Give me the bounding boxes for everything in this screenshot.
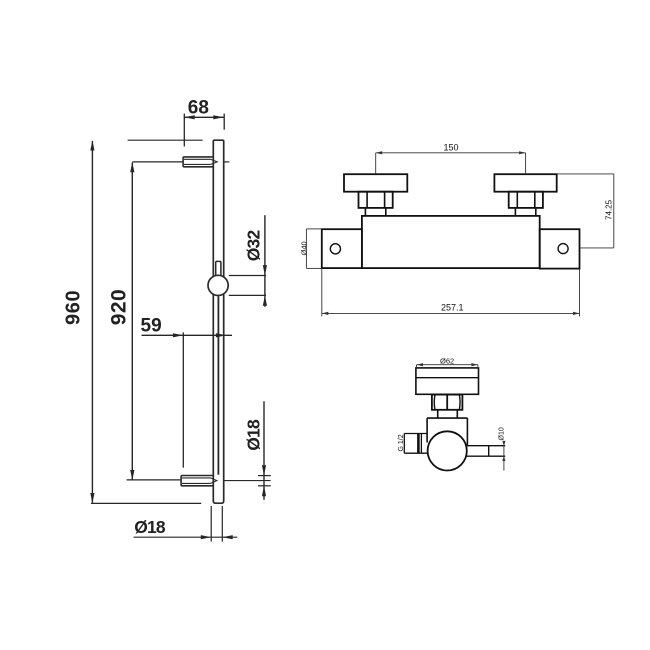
- dim O10 vertical line: [503, 441, 505, 470]
- dim O62 right extension stub: [477, 365, 479, 368]
- bottom wall arm outline: [181, 476, 213, 486]
- top arm right stub: [224, 161, 229, 163]
- slider knob circle: [208, 275, 228, 295]
- dim 150 left arrow: [376, 151, 383, 154]
- dim O18 upper arrow: [262, 465, 266, 475]
- side nut chamfer curves: [434, 395, 460, 409]
- side nut center line: [446, 395, 448, 409]
- dim O32 upper tangent line: [229, 275, 266, 277]
- dim O10 lower arrow: [502, 456, 505, 461]
- side body square right side: [466, 418, 468, 445]
- dim 68 right arrow: [213, 115, 223, 119]
- dim 68 line: [184, 116, 223, 118]
- svg-text:Ø62: Ø62: [440, 356, 454, 365]
- left port thin line: [420, 434, 422, 454]
- dim 150 left extension: [375, 153, 377, 174]
- dim 920 top arrow: [130, 162, 134, 172]
- dim O18 bottom extension right: [221, 506, 223, 542]
- dim 960 bottom reference line: [91, 502, 201, 504]
- dim 920 bottom reference line: [127, 479, 182, 481]
- right bracket: [540, 229, 580, 268]
- right knob cap: [494, 174, 556, 192]
- right stem: [515, 208, 535, 216]
- bottom arm inner line upper: [182, 477, 211, 479]
- dim O18 right vertical line: [263, 401, 265, 500]
- dim 150 right arrow: [519, 151, 526, 154]
- hose center line: [217, 296, 219, 475]
- dim O62 right arrow: [471, 363, 478, 366]
- bottom arm chamfer: [211, 478, 217, 484]
- dim 68 right extension line: [223, 114, 225, 130]
- dim 960 bottom arrow: [90, 493, 94, 503]
- svg-text:Ø18: Ø18: [134, 517, 166, 537]
- dim O62 left extension stub: [416, 365, 418, 368]
- svg-text:59: 59: [141, 315, 162, 336]
- dim 74.25 top reference: [557, 173, 614, 175]
- rail right outer line: [223, 141, 225, 502]
- svg-text:257.1: 257.1: [441, 303, 464, 313]
- right nut: [509, 192, 543, 208]
- dim O40 top line: [306, 228, 321, 230]
- dim 960 top arrow: [90, 140, 94, 150]
- dim O40 vertical line: [305, 229, 307, 269]
- dim 68 left extension line: [183, 114, 185, 147]
- dim 960 top reference line: [128, 139, 203, 141]
- dim O32 upper arrow: [263, 265, 267, 275]
- dim O40 bottom line: [306, 267, 321, 269]
- dim O18 bottom extension left: [210, 506, 212, 542]
- bottom arm inner line lower: [182, 482, 211, 484]
- side nut: [432, 395, 463, 410]
- dim 920 vertical line: [131, 163, 133, 480]
- dim 257.1 right arrow: [573, 312, 580, 315]
- dim 59 first arrow: [173, 333, 183, 337]
- top arm chamfer: [211, 159, 218, 164]
- dim 257.1 left extension: [321, 269, 323, 317]
- slider stem above knob: [216, 261, 221, 275]
- valve body: [362, 216, 540, 268]
- left port outline: [404, 434, 427, 454]
- rail left outer line: [212, 141, 214, 502]
- dim O62 line: [417, 364, 478, 366]
- top wall arm outline: [183, 157, 213, 167]
- dim O18 lower arrow: [262, 486, 266, 496]
- left bracket: [322, 229, 362, 268]
- left nut: [359, 192, 393, 208]
- dim O18 bottom right arrow: [222, 535, 232, 539]
- left port thick end line: [417, 434, 420, 454]
- dim 257.1 left arrow: [322, 312, 329, 315]
- side body square top: [427, 417, 467, 419]
- dim O62 left arrow: [417, 363, 424, 366]
- right port end line: [488, 446, 490, 457]
- dim 150 right extension: [525, 153, 527, 174]
- svg-text:68: 68: [188, 98, 209, 119]
- svg-text:Ø40: Ø40: [300, 241, 309, 255]
- left knob cap: [344, 174, 407, 192]
- dim 68 left arrow: [184, 115, 194, 119]
- side body square left side: [426, 418, 428, 442]
- right bracket hole: [558, 244, 568, 254]
- dim O32 lower tangent line: [229, 294, 266, 296]
- dim 257.1 right extension: [579, 269, 581, 317]
- dim 59 vertical line: [182, 332, 184, 467]
- svg-text:Ø18: Ø18: [243, 419, 263, 451]
- rail bottom cap: [213, 500, 223, 503]
- top arm inner line upper: [184, 158, 211, 160]
- side stem: [438, 410, 458, 418]
- dim 59 second arrow: [216, 333, 226, 337]
- top arm inner line lower: [184, 163, 211, 165]
- svg-text:G 1/2: G 1/2: [398, 434, 405, 451]
- left bracket hole: [330, 244, 340, 254]
- dim O18 upper tick: [258, 475, 271, 477]
- dim 150 line: [376, 152, 526, 154]
- svg-text:150: 150: [444, 142, 459, 152]
- left nut facet lines: [367, 192, 385, 208]
- svg-text:74.25: 74.25: [605, 199, 614, 220]
- side knob cap inner line: [416, 377, 479, 379]
- dim 960 vertical line: [91, 141, 93, 503]
- right port bottom line: [466, 455, 505, 457]
- dim O32 lower arrow: [263, 295, 267, 305]
- dim O10 upper arrow: [502, 441, 505, 446]
- dim 59 line: [142, 334, 233, 336]
- dim 74.25 bottom reference: [580, 247, 614, 249]
- svg-text:Ø32: Ø32: [243, 230, 263, 262]
- side big circle: [428, 431, 467, 470]
- dim O18 bottom left arrow: [201, 535, 211, 539]
- dim 74.25 vertical line: [613, 174, 615, 248]
- side knob cap: [416, 368, 479, 394]
- dim O18 lower tick: [258, 485, 271, 487]
- svg-text:960: 960: [63, 290, 85, 325]
- svg-text:Ø10: Ø10: [499, 427, 506, 440]
- bottom arm leader line to dim: [224, 480, 270, 482]
- svg-text:920: 920: [108, 289, 131, 325]
- right port top line: [466, 445, 505, 447]
- right nut facet lines: [517, 192, 535, 208]
- dim 257.1 line: [322, 312, 580, 314]
- dim O32 vertical line: [264, 215, 266, 307]
- left stem: [365, 208, 385, 216]
- dim 920 top reference line: [132, 161, 183, 163]
- dim 920 bottom arrow: [130, 470, 134, 480]
- rail top cap: [213, 140, 223, 141]
- dim O18 bottom line: [134, 536, 238, 538]
